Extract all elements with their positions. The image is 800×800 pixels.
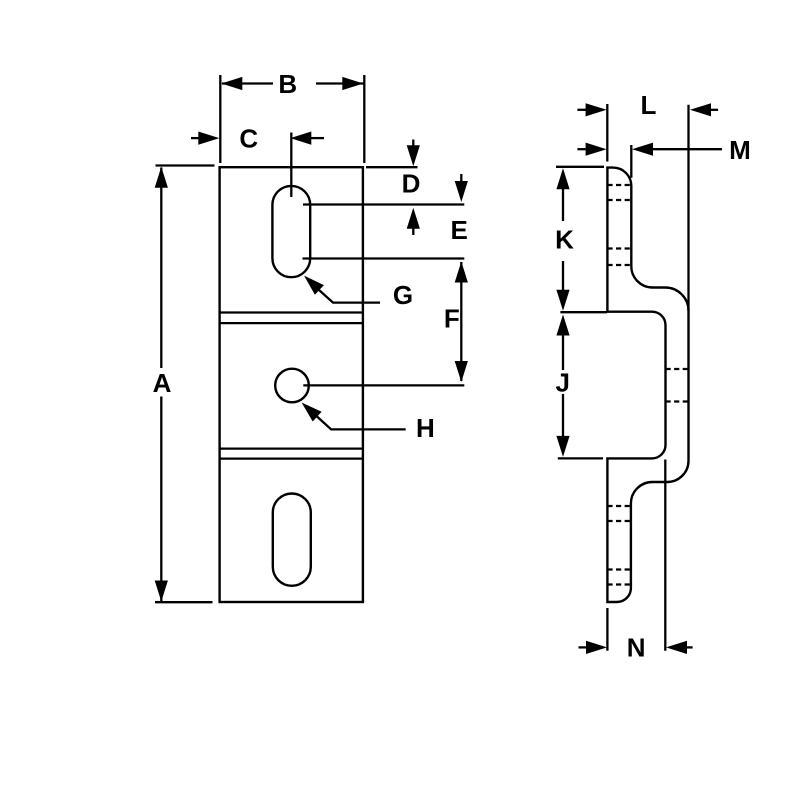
side view outline — [607, 168, 688, 602]
svg-text:N: N — [627, 633, 646, 663]
dim K line upper segment — [562, 189, 564, 221]
dim N right tail — [687, 646, 693, 648]
dim K top extension line — [556, 166, 604, 168]
dim D down arrowhead — [407, 145, 420, 166]
leader G line — [319, 290, 380, 303]
leader H arrowhead — [302, 403, 322, 422]
dim A bottom extension line — [155, 601, 213, 603]
dim L left extension line — [606, 104, 608, 162]
dim K down arrowhead — [556, 290, 569, 311]
dim L right extension line — [687, 105, 689, 311]
dim B right arrowhead — [342, 77, 363, 90]
front view plate outline — [220, 167, 363, 602]
dim D upper arrow tail — [412, 140, 414, 148]
dim C left tail — [191, 137, 200, 139]
dim N left-pointing arrowhead — [666, 641, 687, 654]
leader H line — [317, 417, 406, 430]
dim N right extension line — [664, 460, 666, 651]
dim M right-pointing arrowhead — [586, 143, 607, 156]
middle hole circle — [275, 369, 309, 403]
dim B left extension line — [219, 75, 221, 163]
hidden line bottom flange 2 — [607, 520, 631, 522]
dim A up arrowhead — [155, 167, 168, 188]
dim F down arrowhead — [455, 361, 468, 382]
dim L right-pointing arrowhead — [586, 103, 607, 116]
slot top-arc center line — [303, 203, 464, 205]
dim M right extension line — [630, 145, 632, 178]
hidden line bottom flange 1 — [607, 505, 631, 507]
hidden line middle 2 — [666, 400, 689, 402]
top slot centerline — [290, 133, 292, 198]
dim B left arrowhead — [221, 77, 242, 90]
svg-text:K: K — [555, 225, 574, 255]
svg-text:F: F — [444, 304, 460, 334]
hidden line top flange 3 — [607, 247, 631, 249]
svg-text:E: E — [451, 215, 468, 245]
dim N left extension line — [606, 608, 608, 651]
bottom slot — [273, 494, 311, 586]
dim C left-pointing arrowhead — [290, 132, 311, 145]
dim J line lower segment — [562, 394, 564, 436]
hidden line top flange 4 — [607, 264, 631, 266]
dim K/J boundary extension line — [560, 311, 607, 313]
svg-text:D: D — [402, 169, 421, 199]
svg-text:J: J — [555, 368, 569, 398]
dim M left-pointing arrowhead — [632, 143, 653, 156]
dim L right tail — [711, 109, 719, 111]
dim N left tail — [579, 646, 589, 648]
dim J bottom extension line — [558, 457, 603, 459]
slot bottom-arc center line — [303, 257, 465, 259]
dim L left-pointing arrowhead — [690, 103, 711, 116]
dim A top extension line — [156, 164, 215, 166]
dim A line upper segment — [160, 168, 162, 369]
dim L left tail — [577, 109, 587, 111]
top edge extension line — [366, 166, 418, 168]
dim C right-pointing arrowhead — [198, 132, 219, 145]
dim A line lower segment — [160, 397, 162, 602]
dim B right extension line — [363, 75, 365, 163]
svg-text:A: A — [153, 368, 172, 398]
dim E arrow tail — [460, 174, 462, 182]
dim B line right segment — [316, 82, 364, 84]
dim M leader line — [653, 148, 723, 150]
hidden line middle 1 — [666, 368, 689, 370]
dim M left tail — [577, 148, 587, 150]
dim F up arrowhead — [455, 262, 468, 283]
leader G arrowhead — [304, 276, 324, 295]
svg-text:M: M — [729, 135, 751, 165]
svg-text:L: L — [641, 90, 657, 120]
hidden line bottom flange 3 — [607, 568, 631, 570]
hidden line bottom flange 4 — [607, 583, 630, 585]
dim D up arrowhead — [407, 208, 420, 229]
dim J up arrowhead — [556, 315, 569, 336]
circle center line — [303, 384, 464, 386]
front bend line 1 lower — [220, 322, 363, 324]
dim E down arrowhead — [455, 181, 468, 202]
dim F line — [460, 262, 462, 381]
dim J down arrowhead — [556, 436, 569, 457]
front bend line 1 upper — [220, 311, 363, 313]
dim D lower arrow tail — [412, 228, 414, 235]
svg-text:B: B — [278, 69, 297, 99]
top slot — [272, 186, 310, 277]
dim K line lower segment — [562, 261, 564, 291]
dim B line left segment — [222, 82, 273, 84]
dim J line upper segment — [562, 335, 564, 370]
svg-text:H: H — [416, 413, 435, 443]
front bend line 2 upper — [220, 447, 363, 449]
dim K up arrowhead — [556, 168, 569, 189]
dim A down arrowhead — [155, 581, 168, 602]
svg-text:C: C — [239, 124, 258, 154]
dim C right tail — [311, 137, 324, 139]
hidden line top flange 1 — [607, 184, 631, 186]
svg-text:G: G — [393, 280, 413, 310]
hidden line top flange 2 — [607, 199, 631, 201]
front bend line 2 lower — [220, 457, 363, 459]
dim N right-pointing arrowhead — [586, 641, 607, 654]
